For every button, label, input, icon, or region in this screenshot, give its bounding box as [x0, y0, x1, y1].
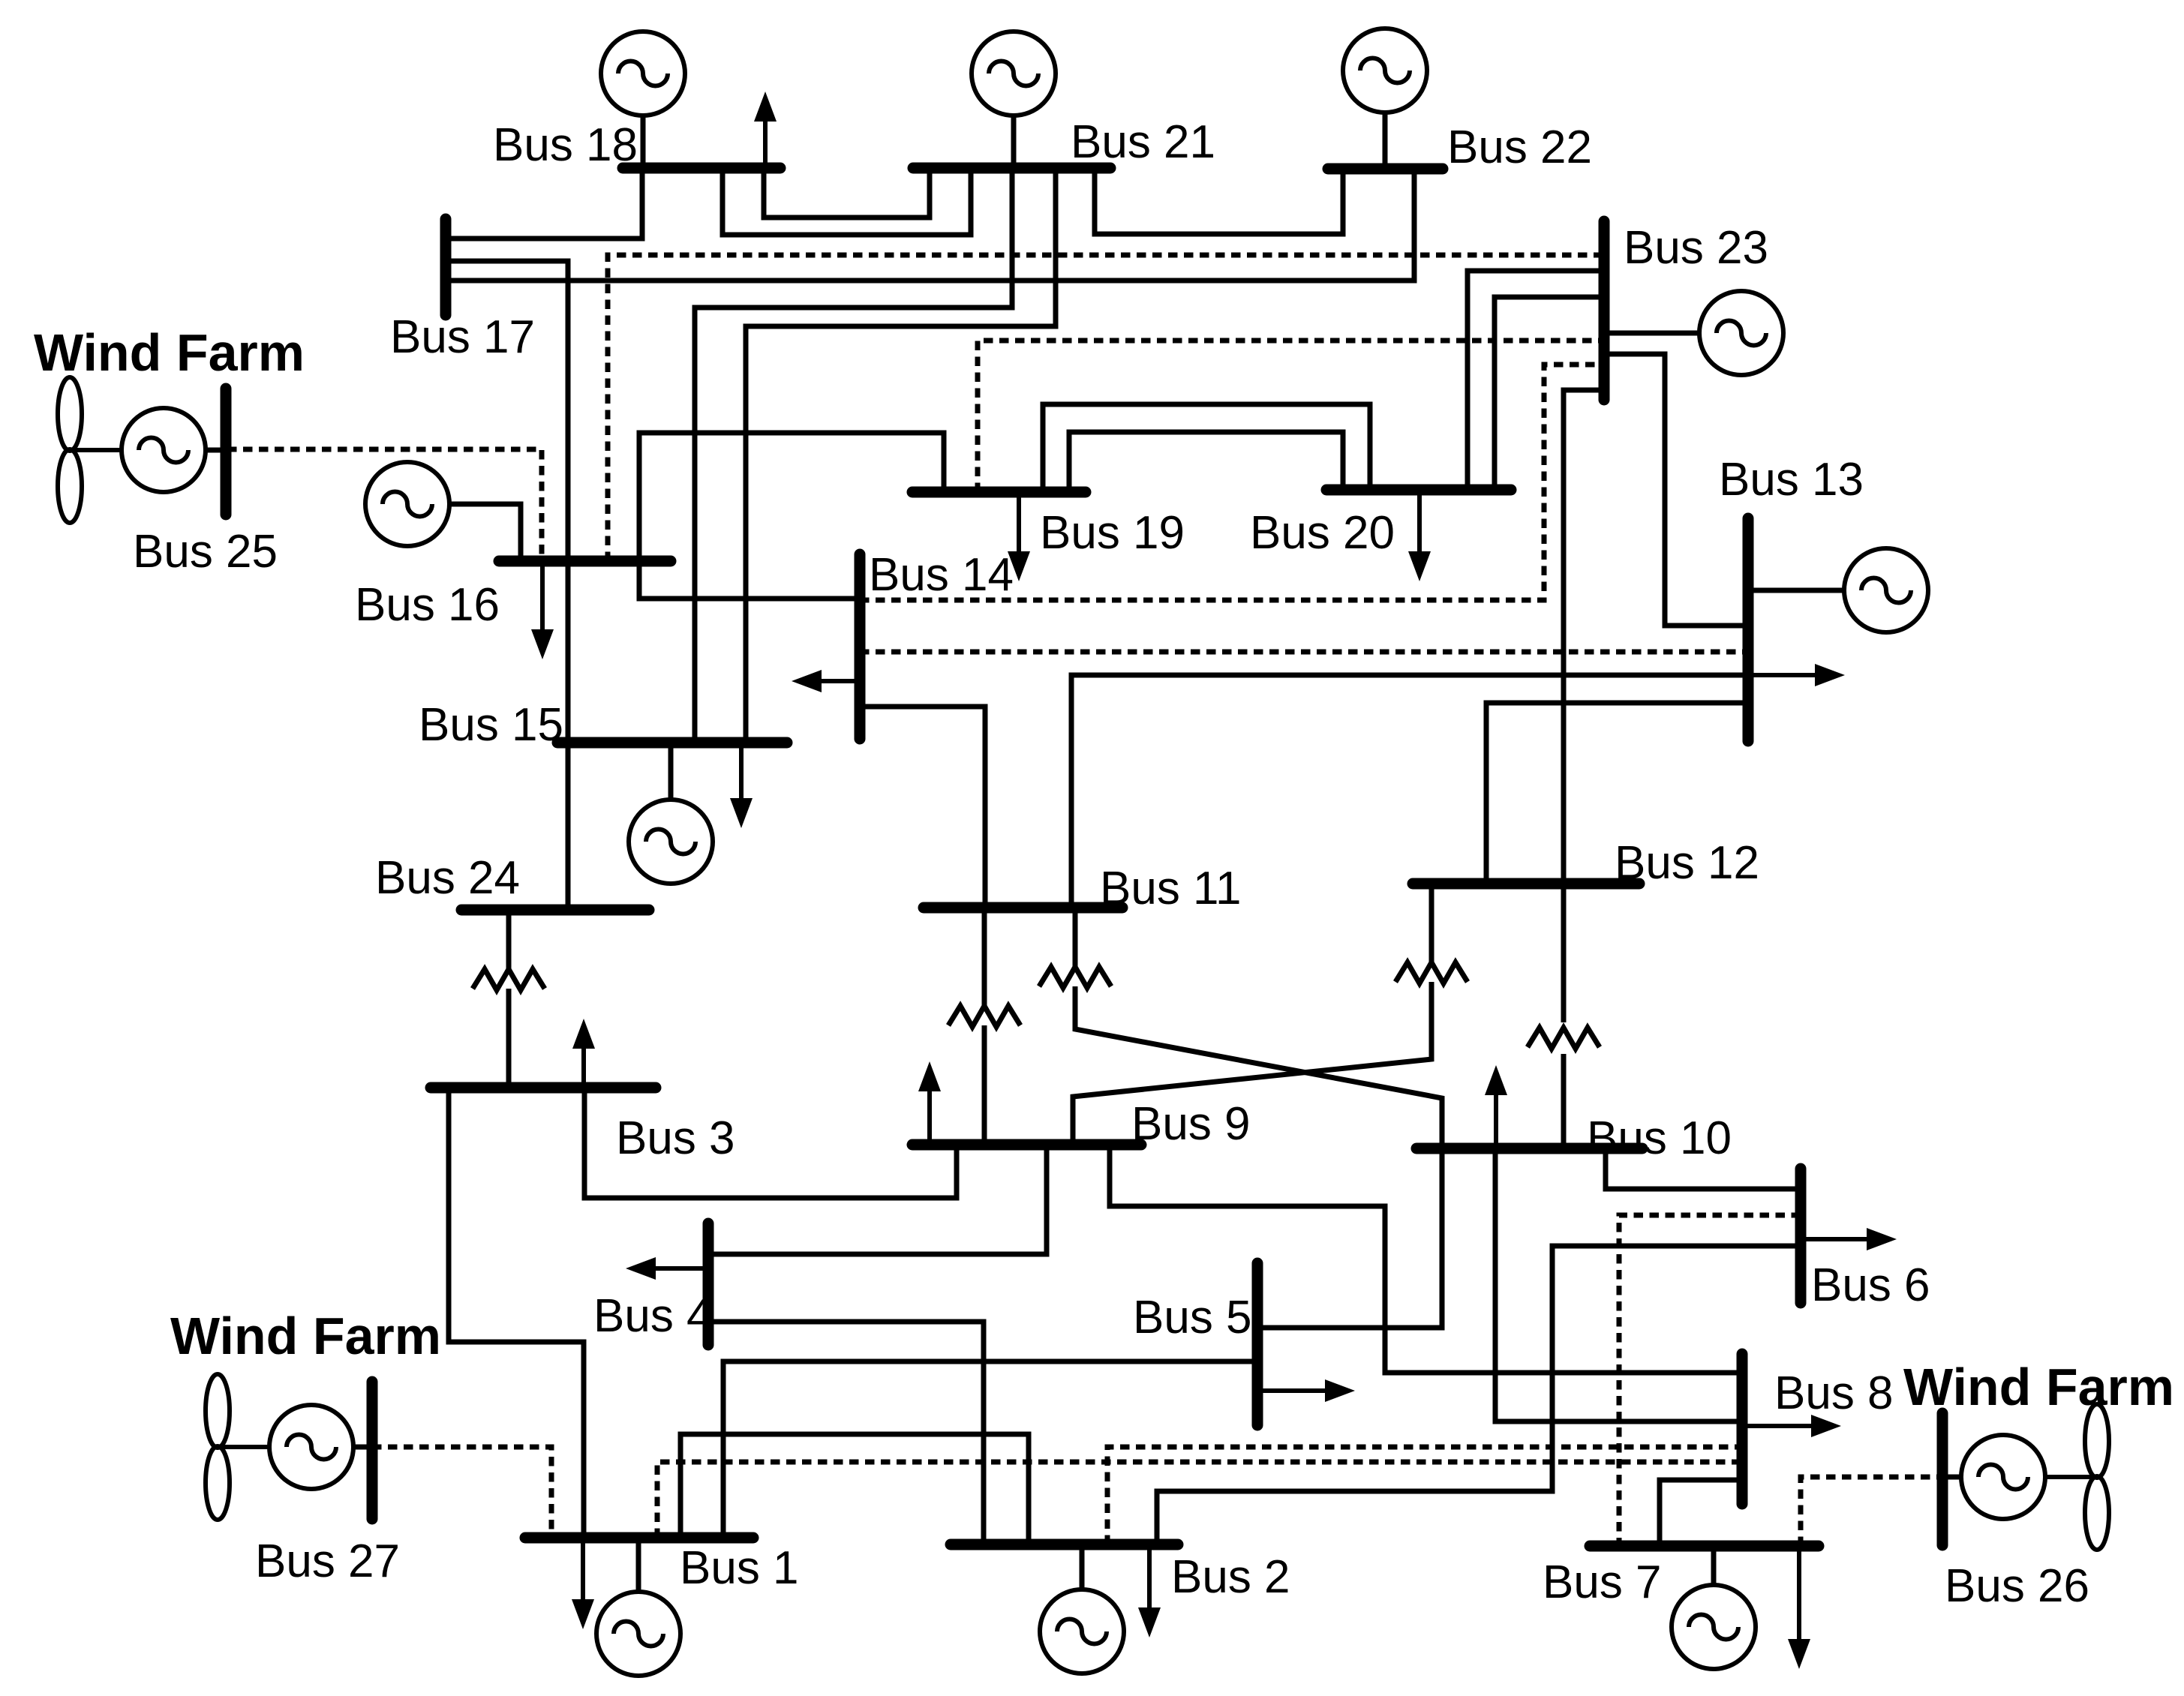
- generator lead Bus2: [1080, 1544, 1085, 1589]
- load arrow Bus19 down: [1008, 492, 1030, 581]
- wire Bus11-Bus13: [1071, 675, 1748, 908]
- load arrow Bus5 right: [1257, 1379, 1355, 1402]
- svg-text:Bus 10: Bus 10: [1587, 1112, 1732, 1164]
- bus bar Bus 3: [431, 1082, 656, 1094]
- generator G Bus2: [1040, 1589, 1124, 1673]
- wire Bus23-Bus12 upper part: [1564, 390, 1604, 884]
- load arrow Bus18 up: [754, 92, 777, 168]
- generator lead Bus15: [668, 743, 674, 800]
- generator G Bus21: [972, 32, 1056, 116]
- wire Bus3-Bus1: [449, 1088, 584, 1538]
- wire Bus23-Bus13: [1604, 354, 1748, 626]
- transformer winding T1 (24-3): [473, 969, 545, 990]
- generator G Bus13: [1844, 548, 1928, 632]
- dashed tie Bus16-Bus23: [608, 255, 1604, 561]
- generator lead Bus7: [1711, 1546, 1717, 1585]
- generator lead Bus21: [1011, 116, 1017, 168]
- svg-text:Bus 25: Bus 25: [133, 526, 278, 578]
- svg-text:Bus 13: Bus 13: [1719, 454, 1864, 506]
- dashed tie Bus19-Bus23: [978, 341, 1604, 492]
- bus bar Bus 7: [1590, 1541, 1819, 1552]
- wind farm lead Bus25: [206, 448, 226, 453]
- bus bar Bus 20: [1326, 485, 1511, 496]
- wire Bus20-Bus23 circuit 1: [1468, 271, 1604, 490]
- load arrow Bus6 right: [1801, 1228, 1897, 1250]
- wire Bus1-Bus5: [723, 1361, 1257, 1538]
- wire Bus18-Bus21 circuit 1: [764, 168, 930, 218]
- dashed tie Bus14-Bus13: [860, 650, 1748, 655]
- wire Bus17 to long vertical (16-15-24 tie): [446, 261, 568, 910]
- bus bar Bus 19: [912, 487, 1086, 498]
- transformer winding T4 (12-9): [1395, 962, 1468, 983]
- dashed tie Bus6-Bus7: [1619, 1215, 1801, 1546]
- load arrow Bus4 left: [626, 1257, 708, 1280]
- svg-text:Bus 6: Bus 6: [1811, 1259, 1930, 1311]
- bus bar Bus 9: [912, 1139, 1141, 1151]
- bus bar Bus 26: [1937, 1413, 1948, 1545]
- load arrow Bus10 up: [1485, 1065, 1507, 1148]
- bus bar Bus 11: [924, 902, 1122, 914]
- wire Bus1-Bus2: [680, 1434, 1029, 1544]
- bus bar Bus 6: [1795, 1169, 1807, 1303]
- wire Bus4-Bus9: [708, 1145, 1047, 1254]
- wire Bus21-Bus15 circuit 1: [695, 168, 1012, 743]
- transformer winding T3 (11-10): [1039, 967, 1111, 988]
- generator G Bus7: [1672, 1585, 1756, 1669]
- dashed tie Bus7-Bus26: [1801, 1477, 1942, 1546]
- wire Bus17-Bus18: [446, 168, 642, 239]
- svg-text:Bus 17: Bus 17: [390, 311, 535, 363]
- generator G Bus15: [629, 800, 713, 884]
- svg-text:Wind Farm: Wind Farm: [34, 323, 305, 382]
- wire Bus14-Bus11: [860, 707, 985, 908]
- load arrow Bus16 down: [531, 561, 554, 659]
- svg-text:Bus 15: Bus 15: [419, 699, 563, 751]
- wire Bus11-Bus10-Bus5 transformer branch: [1073, 908, 1078, 968]
- bus bar Bus 18: [623, 163, 780, 174]
- svg-text:Bus 24: Bus 24: [375, 852, 520, 904]
- wire Bus12-Bus13: [1486, 703, 1748, 884]
- transformer winding T2 (11-9): [948, 1006, 1020, 1027]
- svg-text:Bus 5: Bus 5: [1133, 1292, 1252, 1343]
- wire Bus10-Bus8: [1495, 1148, 1742, 1421]
- generator lead Bus16: [449, 504, 521, 561]
- svg-text:Bus 26: Bus 26: [1945, 1560, 2089, 1612]
- svg-text:Bus 20: Bus 20: [1250, 507, 1395, 559]
- wire Bus21-Bus22: [1095, 168, 1343, 234]
- wire Bus21-Bus15 circuit 2: [746, 168, 1056, 743]
- wire Bus4-Bus2: [711, 1322, 984, 1544]
- dashed tie Bus27-Bus1: [372, 1447, 551, 1538]
- bus bar Bus 14: [855, 554, 866, 739]
- generator lead Bus23: [1604, 331, 1699, 336]
- load arrow Bus20 down: [1408, 490, 1431, 581]
- bus bar Bus 2: [951, 1539, 1178, 1550]
- wire Bus3-Bus9: [584, 1088, 957, 1198]
- wind farm lead Bus27: [353, 1445, 372, 1450]
- generator lead Bus13: [1748, 588, 1844, 593]
- svg-text:Bus 12: Bus 12: [1615, 837, 1759, 889]
- svg-text:Bus 9: Bus 9: [1131, 1098, 1251, 1150]
- wire Bus10-Bus6: [1606, 1148, 1801, 1189]
- load arrow Bus7 down: [1788, 1546, 1810, 1669]
- load arrow Bus3 up: [572, 1019, 595, 1088]
- load arrow Bus13 right: [1748, 664, 1845, 686]
- dashed tie Bus1-Bus8: [657, 1462, 1742, 1538]
- generator G Bus23: [1699, 291, 1783, 375]
- wire T4 diagonal to Bus9: [1073, 982, 1431, 1145]
- svg-text:Wind Farm: Wind Farm: [170, 1307, 441, 1365]
- svg-text:Bus 21: Bus 21: [1071, 116, 1215, 168]
- wind turbine generator Wind Farm Bus27: [206, 1374, 353, 1520]
- wind turbine generator Wind Farm Bus25: [58, 377, 206, 523]
- wire Bus18-Bus21 circuit 2: [722, 168, 971, 235]
- svg-text:Bus 18: Bus 18: [493, 119, 638, 171]
- wire Bus12-Bus10 transformer branch: [1561, 884, 1567, 1022]
- svg-text:Bus 7: Bus 7: [1543, 1556, 1662, 1608]
- bus bar Bus 4: [703, 1223, 714, 1345]
- generator G Bus16: [365, 462, 449, 546]
- bus bar Bus 8: [1737, 1354, 1748, 1504]
- wire Bus19-Bus20 circuit 2: [1069, 432, 1343, 492]
- bus bar Bus 10: [1416, 1143, 1642, 1154]
- svg-text:Bus 23: Bus 23: [1624, 222, 1768, 274]
- svg-text:Bus 2: Bus 2: [1171, 1551, 1290, 1603]
- bus bar Bus 25: [221, 389, 232, 515]
- bus bar Bus 13: [1743, 518, 1754, 741]
- svg-text:Bus 1: Bus 1: [680, 1542, 799, 1594]
- bus bar Bus 17: [440, 219, 452, 315]
- dashed tie Bus2-Bus8: [1107, 1447, 1742, 1544]
- wire T3 diagonal to Bus10 and Bus5: [1075, 986, 1442, 1328]
- generator lead Bus1: [636, 1538, 641, 1592]
- bus bar Bus 23: [1599, 221, 1610, 400]
- svg-text:Bus 22: Bus 22: [1447, 122, 1592, 173]
- load arrow Bus8 right: [1742, 1415, 1841, 1437]
- load arrow Bus9 up: [918, 1061, 941, 1145]
- wire Bus7-Bus8: [1660, 1480, 1742, 1546]
- wire Bus19-Bus20 circuit 1: [1043, 404, 1370, 492]
- load arrow Bus15 down: [730, 743, 753, 828]
- svg-text:Bus 11: Bus 11: [1100, 863, 1241, 914]
- wind farm lead Bus26: [1942, 1475, 1961, 1480]
- wire Bus17-Bus22: [446, 169, 1414, 281]
- bus bar Bus 15: [557, 737, 787, 749]
- wire Bus24-Bus3 transformer branch: [506, 910, 512, 971]
- svg-text:Bus 19: Bus 19: [1040, 507, 1185, 559]
- wire Bus14-Bus16-Bus19 C route: [639, 433, 944, 599]
- svg-text:Bus 14: Bus 14: [869, 549, 1014, 601]
- wind turbine generator Wind Farm Bus26: [1961, 1404, 2109, 1550]
- wire Bus20-Bus23 circuit 2: [1495, 297, 1604, 490]
- svg-text:Bus 3: Bus 3: [616, 1112, 735, 1164]
- bus bar Bus 12: [1413, 878, 1639, 890]
- load arrow Bus2 down: [1138, 1544, 1161, 1637]
- bus bar Bus 21: [913, 163, 1110, 174]
- generator G Bus22: [1343, 29, 1427, 113]
- transformer winding T5 (12-10): [1528, 1028, 1600, 1049]
- bus bar Bus 24: [461, 905, 649, 916]
- svg-text:Bus 8: Bus 8: [1774, 1367, 1894, 1419]
- bus bar Bus 22: [1328, 164, 1443, 175]
- wire Bus12-Bus9 transformer branch: [1429, 884, 1434, 964]
- generator G Bus1: [596, 1592, 680, 1676]
- dashed tie Bus25-Bus16: [227, 449, 542, 561]
- bus bar Bus 16: [499, 556, 671, 567]
- dashed tie Bus14-Bus23: [860, 365, 1604, 600]
- wire Bus2-Bus6: [1157, 1246, 1801, 1544]
- svg-text:Bus 27: Bus 27: [255, 1535, 400, 1587]
- svg-text:Wind Farm: Wind Farm: [1903, 1358, 2174, 1416]
- wire Bus11-Bus9 transformer branch: [982, 908, 987, 1007]
- bus bar Bus 27: [367, 1382, 378, 1519]
- generator lead Bus22: [1383, 113, 1388, 169]
- wire Bus9-Bus8: [1110, 1145, 1742, 1373]
- load arrow Bus14 left: [792, 670, 860, 692]
- load arrow Bus1 down: [572, 1538, 594, 1629]
- svg-text:Bus 16: Bus 16: [355, 579, 500, 631]
- generator G Bus18: [601, 32, 685, 116]
- bus bar Bus 1: [525, 1532, 753, 1544]
- bus bar Bus 5: [1252, 1263, 1263, 1425]
- generator lead Bus18: [641, 116, 646, 168]
- svg-text:Bus 4: Bus 4: [593, 1290, 713, 1342]
